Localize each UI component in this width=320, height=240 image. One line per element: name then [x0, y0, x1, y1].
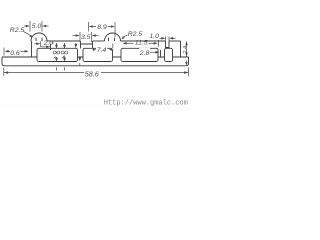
label 7.4 halo [96, 46, 107, 53]
svg-text:7.4: 7.4 [97, 47, 107, 54]
label 3.4 digits [61, 51, 64, 54]
housing right edge [180, 41, 182, 57]
svg-text:R2.5: R2.5 [10, 27, 25, 34]
svg-text:5.0: 5.0 [32, 23, 42, 30]
svg-text:58.6: 58.6 [85, 69, 99, 78]
housing top segment 1 [47, 40, 81, 42]
dim 1.0 arrows [160, 37, 163, 39]
internal edge near 2.8 [160, 50, 162, 57]
svg-text:2.4: 2.4 [183, 46, 189, 54]
dome 2 (R2.5 knob middle) [105, 33, 121, 41]
svg-text:R2.5: R2.5 [128, 31, 143, 38]
base top edge segments [2, 56, 189, 58]
vertical dim c arrows (gap W1/W2) [75, 43, 77, 45]
dim 58.6 extension lines [4, 68, 189, 77]
svg-text:1.0: 1.0 [150, 33, 160, 40]
label 3.0 digits [53, 51, 56, 54]
svg-text:11.5: 11.5 [135, 39, 148, 46]
R2.5 right leader [122, 35, 128, 39]
svg-text:3.5: 3.5 [81, 34, 91, 41]
dim 0.6 [3, 48, 5, 56]
dim 2.0 tick and arrow [40, 42, 42, 48]
svg-text:2.0: 2.0 [43, 40, 54, 47]
label 2.8 halo [139, 48, 150, 56]
internal edge below 2.0 [50, 44, 52, 50]
dim 3.5 arrows [73, 35, 77, 37]
dim 11.5 line and arrows [127, 42, 134, 44]
small arrow below 2.0 [41, 46, 47, 48]
slot (1.0 groove) [166, 41, 170, 48]
dim 2.8 arrow [150, 51, 156, 53]
vertical dim 2.4 right side [186, 42, 188, 57]
base plate outline [2, 57, 189, 66]
dome 1 inner ticks [36, 38, 42, 41]
window W4 [165, 48, 173, 61]
dim 3.5 extension lines [80, 32, 92, 42]
svg-text:2.8: 2.8 [139, 50, 150, 57]
notch (3.5 slot) [81, 41, 93, 49]
dome 1 (R2.5 knob left) [31, 33, 47, 41]
label 3.0 glyph below [54, 57, 58, 59]
dim 8.9 extension lines [89, 22, 116, 37]
dome 2 inner ticks [109, 38, 115, 41]
window W2 [83, 48, 113, 61]
housing left edge [31, 41, 33, 57]
housing top segment 2 [93, 40, 105, 42]
window W3 [121, 48, 158, 61]
vertical dim b (3.4) arrows [64, 43, 66, 45]
vertical dim a (3.0) arrows [56, 43, 58, 45]
dim 8.9 arrows [93, 26, 97, 28]
dim 5.0 extension lines [30, 21, 42, 32]
dim 5.0 arrows [24, 25, 27, 27]
housing top segment 3 [121, 40, 166, 42]
svg-text:8.9: 8.9 [97, 24, 107, 31]
dim 58.6 line and arrows [4, 72, 84, 74]
housing top segment 4 [169, 40, 181, 42]
R2.5 left leader [24, 32, 33, 38]
window W1 [37, 48, 78, 61]
svg-text:Http://www.gmalc.com: Http://www.gmalc.com [104, 99, 188, 107]
dim 7.4 arrows [93, 49, 97, 51]
svg-text:0.6: 0.6 [10, 50, 20, 57]
label 3.4 glyph below [63, 56, 66, 59]
